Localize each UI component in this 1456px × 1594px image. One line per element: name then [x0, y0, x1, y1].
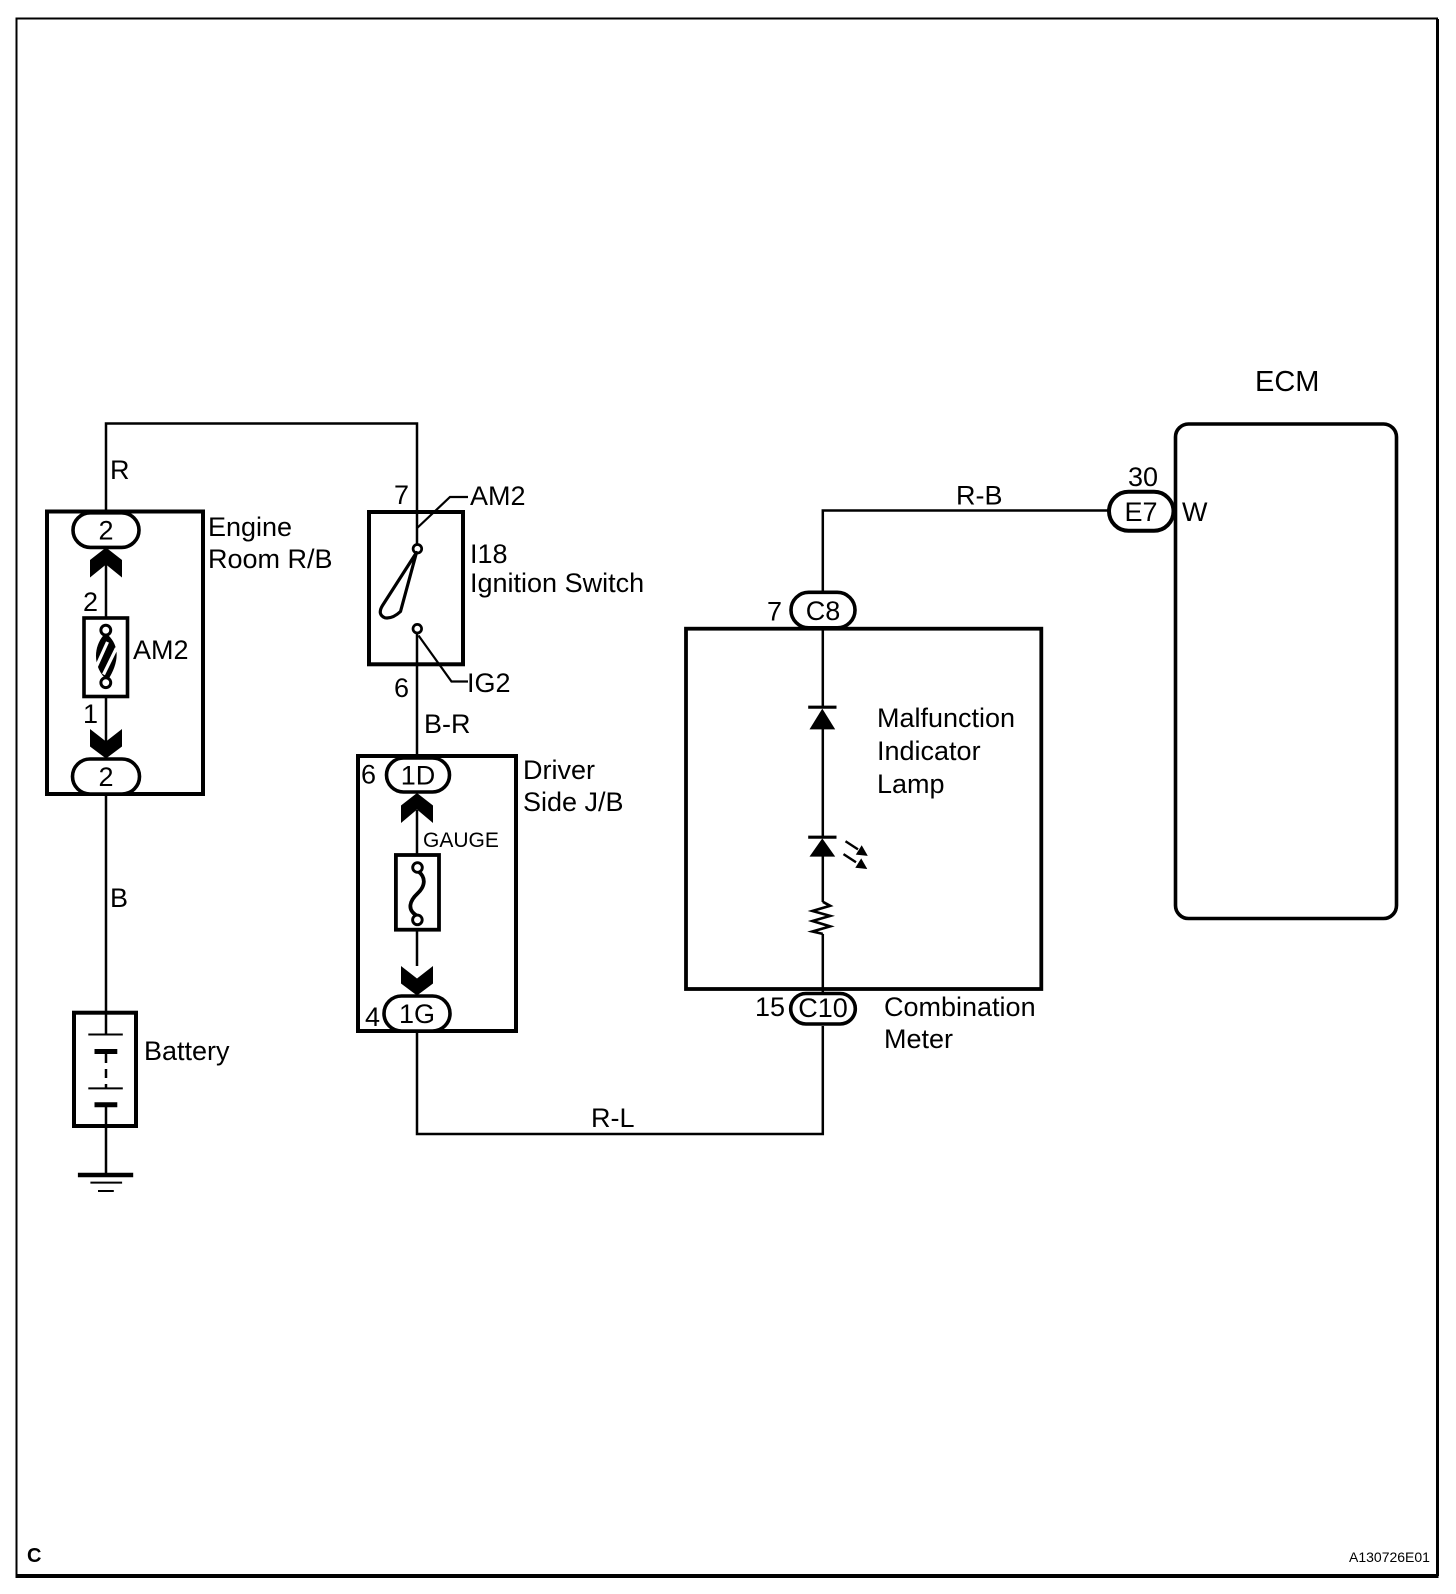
svg-text:R: R	[110, 455, 130, 485]
svg-text:E7: E7	[1124, 497, 1157, 527]
callout line AM2	[417, 497, 468, 529]
switch contact top	[413, 545, 422, 554]
svg-text:1G: 1G	[399, 999, 435, 1029]
svg-text:A130726E01: A130726E01	[1349, 1549, 1430, 1565]
svg-text:7: 7	[767, 597, 782, 627]
svg-text:Driver: Driver	[523, 755, 595, 785]
svg-text:Side J/B: Side J/B	[523, 787, 624, 817]
svg-text:AM2: AM2	[133, 635, 189, 665]
svg-text:4: 4	[365, 1002, 380, 1032]
svg-text:B: B	[110, 883, 128, 913]
wire inside Engine Room R/B	[105, 547, 108, 759]
svg-text:Engine: Engine	[208, 512, 292, 542]
ignition switch I18 box	[369, 512, 463, 664]
svg-text:R-B: R-B	[956, 481, 1003, 511]
wire inside J/B	[416, 810, 419, 966]
wire inside meter (C8 down to C10)	[822, 628, 825, 708]
connector oval 1D	[387, 758, 450, 792]
switch contact bottom	[413, 624, 422, 633]
diode D1	[808, 707, 836, 729]
Combination Meter box	[686, 629, 1041, 989]
svg-text:Lamp: Lamp	[877, 769, 945, 799]
svg-text:1: 1	[83, 699, 98, 729]
LED arrows	[844, 841, 868, 869]
callout line IG2	[419, 636, 469, 682]
svg-text:Room R/B: Room R/B	[208, 544, 333, 574]
svg-text:2: 2	[98, 762, 113, 792]
svg-text:C10: C10	[798, 993, 848, 1023]
svg-text:GAUGE: GAUGE	[423, 829, 499, 852]
connector oval 2 (top)	[73, 513, 139, 548]
svg-text:B-R: B-R	[424, 709, 471, 739]
battery	[74, 1012, 136, 1173]
svg-text:C: C	[27, 1545, 41, 1567]
Driver Side J/B box	[358, 756, 516, 1031]
wire B: Engine Room R/B bottom to battery	[105, 794, 108, 1012]
connector oval 2 (bottom)	[73, 759, 140, 794]
wire R: battery rail from Engine Room R/B top to ignition switch	[106, 424, 417, 544]
svg-text:30: 30	[1128, 462, 1158, 492]
resistor	[812, 902, 830, 934]
svg-text:15: 15	[755, 992, 785, 1022]
switch lever	[380, 553, 416, 618]
connector oval C10	[791, 993, 856, 1024]
LED D2	[808, 837, 836, 856]
svg-text:6: 6	[394, 673, 409, 703]
ground	[78, 1175, 133, 1191]
wire R-B: C8 to ECM E7	[823, 511, 1109, 594]
connector oval 1G	[384, 996, 450, 1031]
svg-text:1D: 1D	[401, 761, 436, 791]
svg-text:Battery: Battery	[144, 1036, 230, 1066]
svg-text:Indicator: Indicator	[877, 736, 981, 766]
svg-text:ECM: ECM	[1255, 366, 1319, 398]
connector oval C8	[791, 592, 855, 628]
svg-text:Combination: Combination	[884, 992, 1036, 1022]
svg-text:6: 6	[361, 760, 376, 790]
fuse GAUGE	[396, 855, 439, 930]
svg-text:2: 2	[83, 587, 98, 617]
svg-text:C8: C8	[806, 596, 841, 626]
svg-text:7: 7	[394, 480, 409, 510]
arrow up (into J/B)	[401, 793, 433, 823]
arrow up (into Engine Room R/B)	[90, 548, 122, 578]
svg-text:2: 2	[98, 516, 113, 546]
svg-text:AM2: AM2	[470, 481, 526, 511]
Engine Room R/B box	[47, 512, 203, 795]
wire: ignition switch IG2 to Driver Side J/B 1D	[416, 634, 419, 758]
arrow down (out of Engine Room R/B)	[90, 729, 122, 759]
ECM box	[1176, 424, 1397, 919]
svg-text:Meter: Meter	[884, 1024, 953, 1054]
svg-text:I18: I18	[470, 539, 508, 569]
wire R-L: 1G to C10	[417, 1026, 823, 1134]
arrow down (out of J/B)	[401, 966, 433, 996]
fuse AM2 (fusible link ribbon)	[84, 618, 128, 697]
svg-text:Ignition Switch: Ignition Switch	[470, 568, 644, 598]
svg-text:W: W	[1182, 497, 1208, 527]
svg-text:Malfunction: Malfunction	[877, 703, 1015, 733]
svg-text:IG2: IG2	[467, 668, 511, 698]
svg-text:R-L: R-L	[591, 1103, 635, 1133]
connector oval E7	[1109, 492, 1174, 531]
